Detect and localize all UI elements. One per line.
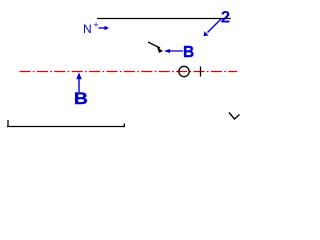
svg-text:2: 2 (221, 8, 230, 27)
svg-text:N: N (83, 22, 92, 36)
svg-text:+: + (93, 20, 99, 31)
svg-text:B: B (183, 44, 194, 61)
svg-text:B: B (74, 89, 88, 107)
